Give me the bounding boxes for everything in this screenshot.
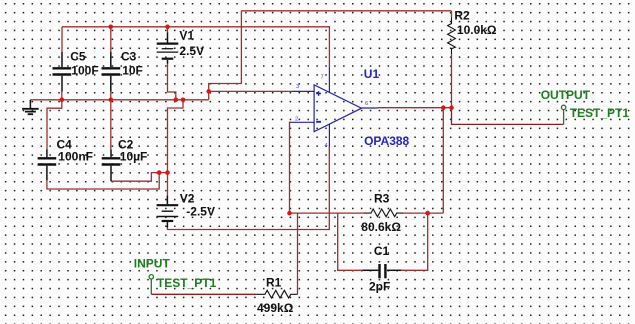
- svg-text:2pF: 2pF: [369, 279, 390, 293]
- svg-text:R1: R1: [266, 275, 282, 289]
- wire R2 top rail: [241, 10, 451, 12]
- wire pin3 noninverting input: [209, 90, 292, 92]
- wire C3-C2 vertical: [110, 92, 112, 150]
- node C4/C2 join: [157, 170, 162, 175]
- op-amp U1: [292, 67, 378, 147]
- svg-text:3: 3: [296, 84, 299, 90]
- svg-text:2.5V: 2.5V: [179, 44, 204, 58]
- wire R2 bottom: [451, 54, 453, 108]
- test point OUTPUT: [561, 105, 565, 124]
- node +input: [206, 89, 211, 94]
- svg-text:2: 2: [295, 116, 298, 122]
- wire C3 top lead: [110, 27, 112, 52]
- wire R3 right: [403, 212, 443, 214]
- wire C4 top jog: [47, 100, 62, 150]
- capacitor C3: [102, 52, 121, 92]
- wire R2 top stub: [451, 11, 453, 18]
- battery V1: [157, 32, 179, 64]
- svg-text:80.6kΩ: 80.6kΩ: [361, 220, 401, 234]
- wire inverting node to R3 left: [290, 212, 364, 214]
- wire rail drop to +input node: [209, 11, 242, 100]
- svg-text:R2: R2: [454, 9, 470, 23]
- svg-text:V1: V1: [179, 29, 194, 43]
- node V1 top: [165, 25, 170, 30]
- svg-text:C5: C5: [70, 50, 86, 64]
- svg-text:10µF: 10µF: [120, 150, 148, 164]
- wire C5 top lead: [61, 27, 63, 52]
- svg-text:7: 7: [321, 74, 324, 80]
- resistor R1: [256, 290, 297, 298]
- wire R1 branch: [297, 213, 299, 294]
- svg-text:INPUT: INPUT: [134, 256, 171, 270]
- capacitor C2: [102, 150, 121, 182]
- wire pin7 supply drop: [328, 26, 330, 67]
- svg-text:C1: C1: [374, 244, 390, 258]
- ground: [22, 100, 39, 114]
- wire V1 bottom jog: [168, 64, 176, 100]
- node inverting: [287, 211, 292, 216]
- node C3 top: [109, 25, 114, 30]
- wire input test point: [151, 293, 256, 295]
- capacitor C1: [363, 264, 402, 278]
- wire output test point: [452, 108, 564, 125]
- node C1 right: [425, 211, 430, 216]
- battery V2: [157, 195, 179, 227]
- wire pin2 inverting input: [290, 122, 293, 213]
- node V2 vertical: [165, 170, 170, 175]
- svg-text:10F: 10F: [122, 63, 143, 77]
- svg-text:OPA388: OPA388: [364, 134, 409, 148]
- node V2 branch: [181, 98, 186, 103]
- wire C5 bottom: [61, 92, 63, 100]
- svg-text:TEST_PT1: TEST_PT1: [570, 106, 630, 120]
- node C3/C2: [109, 98, 114, 103]
- wire C4 bottom: [47, 173, 159, 189]
- wire V1 top stub: [167, 27, 169, 33]
- svg-text:499kΩ: 499kΩ: [257, 301, 294, 315]
- svg-text:V2: V2: [180, 192, 195, 206]
- svg-text:U1: U1: [364, 67, 380, 81]
- node ground/C5: [60, 98, 65, 103]
- svg-text:C3: C3: [121, 50, 137, 64]
- wire mid ground rail: [30, 99, 208, 101]
- wire output: [378, 107, 452, 109]
- svg-text:100nF: 100nF: [58, 150, 93, 164]
- wire V2 top branch: [168, 100, 184, 196]
- svg-text:TEST_PT1: TEST_PT1: [157, 276, 217, 290]
- resistor R3: [363, 209, 403, 217]
- wire C1 left branch: [338, 213, 363, 270]
- resistor R2: [448, 18, 456, 55]
- svg-text:10.0kΩ: 10.0kΩ: [457, 23, 497, 37]
- svg-text:OUTPUT: OUTPUT: [541, 88, 591, 102]
- svg-text:-2.5V: -2.5V: [186, 205, 215, 219]
- test point INPUT: [149, 275, 153, 295]
- wire R3 feedback vertical: [442, 108, 444, 213]
- wire C1 right branch: [401, 213, 427, 270]
- wire C2 bottom: [111, 173, 159, 182]
- node output/R3: [441, 105, 446, 110]
- node output/R2: [449, 105, 454, 110]
- capacitor C4: [38, 150, 57, 181]
- wire V2 minus to pin4: [167, 147, 329, 230]
- node V1 bottom: [174, 98, 179, 103]
- svg-text:R3: R3: [374, 192, 390, 206]
- svg-text:100F: 100F: [71, 63, 98, 77]
- wire V+ top rail: [62, 26, 329, 28]
- capacitor C5: [53, 52, 72, 92]
- svg-text:6: 6: [365, 101, 368, 107]
- wire node link: [159, 172, 167, 174]
